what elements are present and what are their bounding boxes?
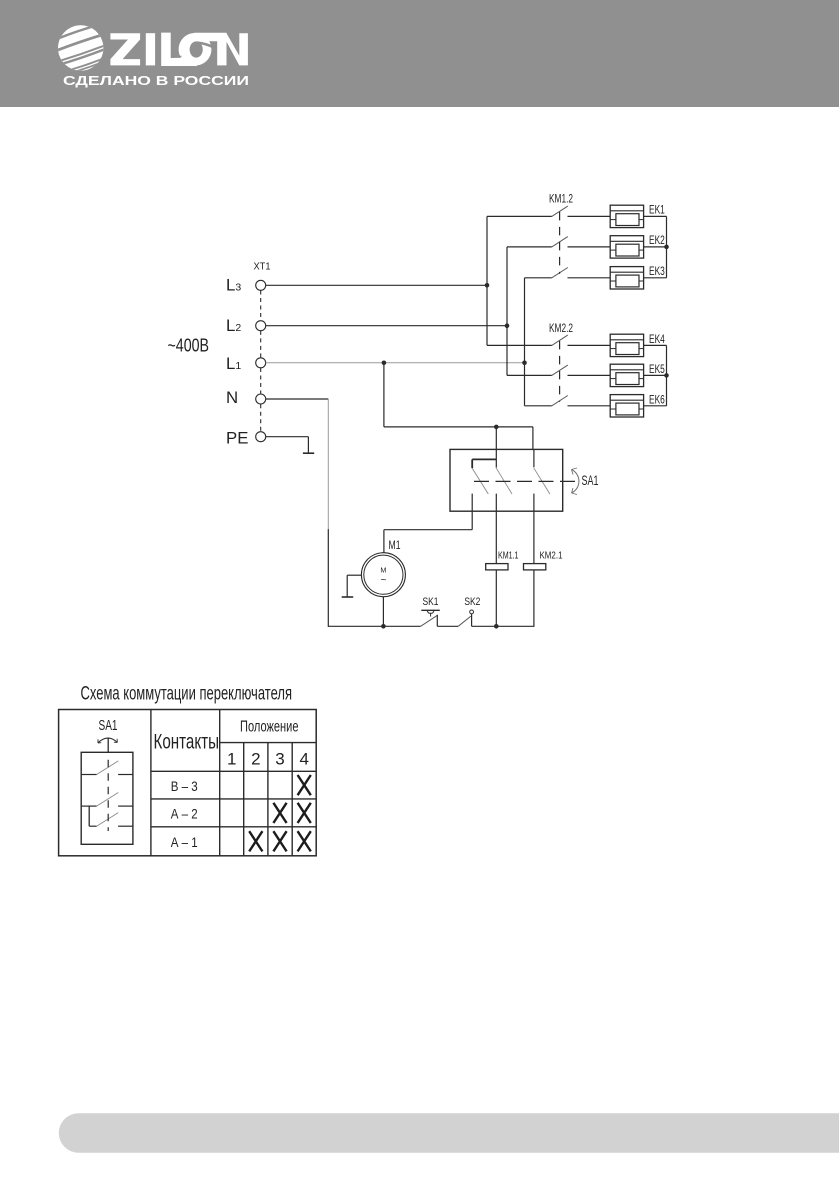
- svg-text:Схема коммутации переключателя: Схема коммутации переключателя: [81, 684, 293, 705]
- svg-text:EK6: EK6: [649, 393, 665, 407]
- wire KM1.2 pole 1 right stub: [568, 215, 611, 217]
- motor ground lead: [347, 574, 361, 576]
- ground motor earth bar: [342, 596, 354, 598]
- table SA1 bracket: [88, 806, 90, 826]
- SA1 bottom terminal 1: [471, 494, 473, 530]
- table grid: [59, 710, 317, 856]
- wire EK6 right lead: [644, 405, 667, 407]
- svg-text:XT1: XT1: [254, 262, 271, 273]
- terminal L2: [256, 321, 266, 331]
- node L2 junction: [505, 323, 510, 328]
- contact blade KM2.2.3: [552, 396, 568, 406]
- node L1 tap: [382, 361, 387, 366]
- logo word ZILON: [110, 33, 248, 66]
- wire N vertical drop lower: [327, 529, 329, 627]
- svg-text:Положение: Положение: [240, 719, 299, 736]
- node coil junction: [494, 624, 499, 629]
- wire KM2.2 pole 2 left stub: [507, 374, 552, 376]
- heater EK3: [610, 267, 643, 289]
- svg-text:M1: M1: [389, 540, 401, 552]
- svg-text:EK1: EK1: [649, 202, 665, 216]
- svg-text:KM1.1: KM1.1: [498, 550, 519, 561]
- svg-text:В – 3: В – 3: [171, 778, 198, 794]
- SA1 blade pole3: [534, 468, 550, 494]
- svg-text:~400В: ~400В: [168, 335, 210, 355]
- heater EK6: [610, 395, 643, 417]
- contact blade KM2.2.1: [552, 335, 568, 345]
- wire phase L3 feeder vertical: [486, 216, 488, 345]
- SA1 rotation arc: [572, 470, 579, 494]
- wire N vertical drop (hairline upper): [327, 399, 329, 530]
- svg-text:M: M: [380, 565, 386, 574]
- table SA1 contact 2: [81, 793, 133, 807]
- wire phase L1 feeder vertical: [524, 278, 526, 406]
- ground PE earth bar: [303, 452, 314, 454]
- svg-text:SA1: SA1: [582, 473, 599, 488]
- svg-text:EK2: EK2: [649, 233, 665, 247]
- wire L3: [266, 284, 487, 286]
- heater EK2: [610, 236, 643, 258]
- SA1 blade pole2: [496, 468, 512, 494]
- terminal N: [256, 394, 266, 404]
- svg-text:2: 2: [251, 749, 260, 768]
- wire KM2.2 pole 1 right stub: [568, 344, 611, 346]
- svg-text:PE: PE: [226, 428, 248, 447]
- SA1 internal jog bar: [472, 458, 496, 460]
- SA1 linkage dashed horizontal: [474, 480, 579, 482]
- column numbers: [227, 749, 309, 768]
- wire L2: [266, 325, 507, 327]
- wire bottom rail left: [328, 625, 420, 627]
- svg-text:1: 1: [227, 749, 236, 768]
- svg-text:4: 4: [299, 749, 308, 768]
- node motor junction: [381, 624, 386, 629]
- node bus group1: [664, 245, 669, 250]
- wire EK2 right lead: [644, 246, 667, 248]
- wire KM1.2 pole 3 right stub: [568, 277, 611, 279]
- heater EK5: [610, 364, 643, 386]
- wire KM2.2 pole 3 right stub: [568, 405, 611, 407]
- svg-text:Контакты: Контакты: [154, 731, 220, 754]
- SA1 pole 3 terminal: [533, 449, 535, 467]
- wire right bus group1: [666, 216, 668, 277]
- terminal PE: [256, 432, 266, 442]
- wire EK1 right lead: [644, 215, 667, 217]
- table SA1 linkage dashed: [107, 760, 109, 831]
- thermal switch SK1: [421, 610, 440, 626]
- node L3 junction: [485, 283, 490, 288]
- svg-text:KM2.2: KM2.2: [549, 321, 573, 335]
- wire N: [266, 398, 329, 400]
- terminal strip dashed line: [260, 291, 262, 432]
- table SA1 rotation arrow: [98, 738, 117, 743]
- table SA1 contact 3: [89, 813, 133, 827]
- svg-text:А – 1: А – 1: [171, 834, 198, 850]
- contact blade KM2.2.2: [552, 365, 568, 375]
- wire KM1.2 pole 2 right stub: [568, 246, 611, 248]
- wire right bus group2: [666, 345, 668, 405]
- SA1 blade pole1: [472, 468, 488, 494]
- wire KM2.2 pole 3 left stub: [525, 405, 552, 407]
- wire KM2.2 pole 2 right stub: [568, 374, 611, 376]
- table SA1 stem: [107, 738, 109, 753]
- coil KM2.1: [524, 564, 546, 570]
- wire KM1.2 pole 2 left stub: [507, 246, 552, 248]
- phase labels L3 L2 L1 N PE: [226, 275, 248, 447]
- wire motor bottom: [382, 597, 384, 627]
- terminal L3: [256, 280, 266, 290]
- wire coil KM2.1 bottom: [533, 570, 535, 627]
- svg-text:EK3: EK3: [649, 264, 665, 278]
- wire EK5 right lead: [644, 374, 667, 376]
- svg-text:SA1: SA1: [99, 718, 118, 734]
- contact blade KM1.2.2: [552, 237, 568, 247]
- thermal switch SK2: [458, 610, 473, 626]
- svg-text:SK2: SK2: [464, 596, 480, 608]
- node SA1 feed split: [494, 425, 499, 430]
- svg-text:KM1.2: KM1.2: [549, 192, 573, 206]
- svg-text:EK4: EK4: [649, 332, 665, 346]
- svg-text:KM2.1: KM2.1: [540, 550, 563, 561]
- SA1 bottom terminal 3: [533, 494, 535, 564]
- wire phase L2 feeder vertical: [506, 247, 508, 376]
- terminal L1: [256, 358, 266, 368]
- switch SA1 box: [450, 449, 563, 511]
- svg-text:3: 3: [275, 749, 284, 768]
- node L1 junction: [522, 361, 527, 366]
- SA1 bottom terminal 2: [495, 494, 497, 564]
- wire PE: [266, 436, 309, 438]
- wire L1 (hairline): [266, 362, 525, 364]
- wire coil KM1.1 bottom: [495, 570, 497, 626]
- wire SK1-SK2: [437, 625, 458, 627]
- coil KM1.1: [486, 564, 508, 570]
- wire L1 tap down: [383, 363, 385, 427]
- wire KM1.2 pole 3 left stub: [525, 277, 552, 279]
- wire to SA1 horizontal: [384, 426, 533, 428]
- logo globe icon: [45, 14, 117, 82]
- wire bottom rail right: [472, 625, 535, 627]
- footer bar: [59, 1113, 839, 1153]
- wire SA1 to motor horizontal: [384, 529, 472, 531]
- svg-text:EK5: EK5: [649, 362, 665, 376]
- X marks: [249, 775, 311, 851]
- heater EK1: [610, 205, 643, 227]
- node bus group2: [664, 373, 669, 378]
- linkage dashed KM1.2: [559, 212, 561, 274]
- table SA1 contact 1: [81, 761, 133, 775]
- wire KM2.2 pole 1 left stub: [487, 344, 552, 346]
- table SA1 inner box: [81, 752, 133, 844]
- svg-text:СДЕЛАНО В РОССИИ: СДЕЛАНО В РОССИИ: [63, 74, 249, 88]
- wire EK3 right lead: [644, 277, 667, 279]
- svg-text:~: ~: [380, 575, 386, 586]
- wire SA1 feed left: [495, 427, 497, 468]
- contact blade KM1.2.3: [552, 268, 568, 278]
- motor M1: [361, 553, 405, 597]
- svg-text:А – 2: А – 2: [171, 806, 198, 822]
- wire EK4 right lead: [644, 344, 667, 346]
- header gray band: [0, 0, 839, 107]
- wire KM1.2 pole 1 left stub: [487, 215, 552, 217]
- svg-text:SK1: SK1: [423, 596, 439, 608]
- contact blade KM1.2.1: [552, 206, 568, 216]
- linkage dashed KM2.2: [559, 341, 561, 402]
- svg-text:N: N: [226, 388, 238, 407]
- wire motor top: [383, 530, 385, 553]
- heater EK4: [610, 334, 643, 356]
- wire SA1 feed right: [532, 427, 534, 450]
